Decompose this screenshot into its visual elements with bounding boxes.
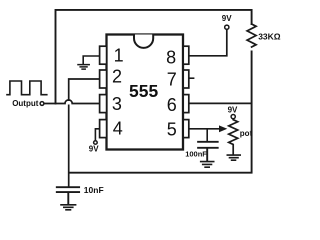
svg-text:2: 2 bbox=[112, 66, 122, 86]
svg-text:7: 7 bbox=[167, 70, 177, 90]
svg-text:555: 555 bbox=[129, 81, 158, 101]
svg-text:8: 8 bbox=[166, 48, 176, 68]
svg-text:33KΩ: 33KΩ bbox=[258, 32, 281, 42]
svg-text:6: 6 bbox=[167, 95, 177, 115]
svg-text:4: 4 bbox=[113, 118, 123, 138]
svg-text:3: 3 bbox=[112, 94, 122, 114]
svg-text:Output: Output bbox=[12, 99, 39, 108]
svg-text:pot: pot bbox=[240, 129, 253, 138]
svg-text:100nF: 100nF bbox=[185, 149, 207, 158]
svg-text:9V: 9V bbox=[89, 145, 99, 154]
svg-text:5: 5 bbox=[167, 119, 177, 139]
svg-text:9V: 9V bbox=[228, 106, 238, 115]
svg-text:10nF: 10nF bbox=[84, 185, 104, 195]
svg-text:9V: 9V bbox=[222, 14, 232, 23]
svg-text:1: 1 bbox=[114, 46, 124, 66]
